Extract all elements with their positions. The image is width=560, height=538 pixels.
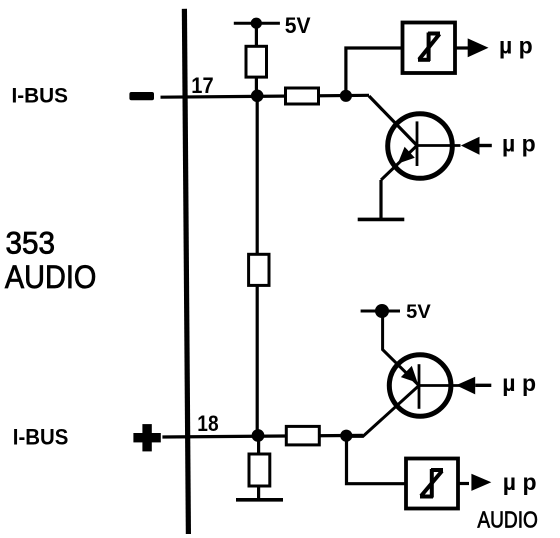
svg-text:I-BUS: I-BUS: [13, 424, 69, 449]
svg-text:I-BUS: I-BUS: [12, 84, 69, 108]
svg-text:AUDIO: AUDIO: [5, 259, 97, 295]
svg-text:5V: 5V: [406, 301, 431, 323]
svg-text:µ p: µ p: [502, 131, 536, 157]
svg-text:µ p: µ p: [499, 33, 533, 59]
svg-text:5V: 5V: [285, 13, 311, 38]
svg-text:353: 353: [6, 225, 56, 261]
svg-text:17: 17: [191, 73, 213, 98]
svg-text:AUDIO: AUDIO: [477, 506, 538, 532]
svg-text:µ p: µ p: [503, 469, 537, 495]
svg-text:18: 18: [197, 411, 218, 436]
svg-text:µ p: µ p: [502, 370, 536, 396]
